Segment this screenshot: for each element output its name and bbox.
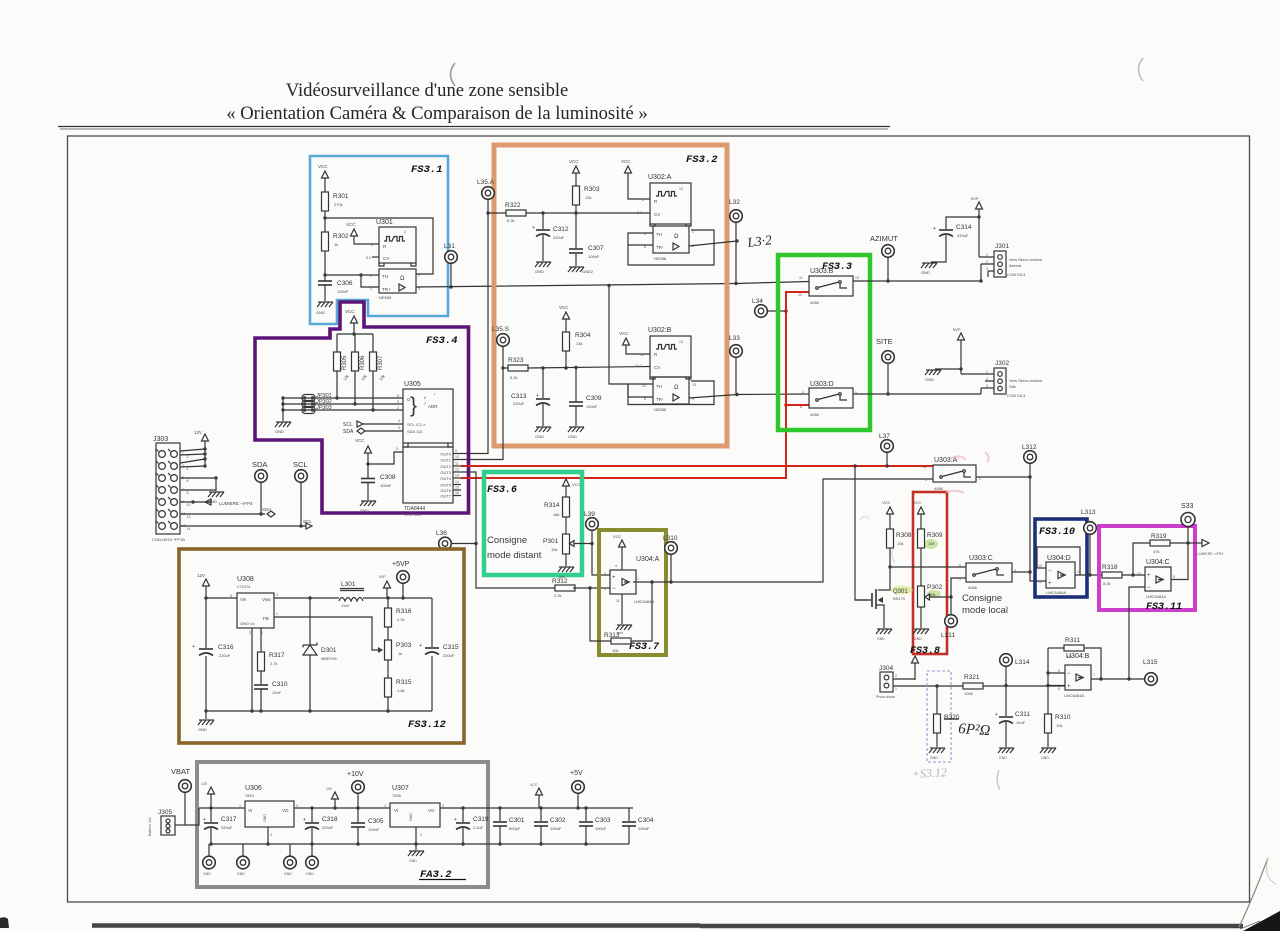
- resistor R310 10k: [1047, 713, 1049, 715]
- wire U302:B discharge loop: [628, 381, 714, 405]
- svg-text:R301: R301: [333, 193, 349, 200]
- svg-text:U303:B: U303:B: [810, 268, 834, 275]
- resistor R313 feedback 10k: [590, 588, 611, 641]
- title underline double rule: [58, 126, 890, 128]
- svg-text:15: 15: [455, 486, 459, 490]
- svg-text:C318: C318: [322, 816, 338, 823]
- svg-text:VCC=10V: VCC=10V: [404, 512, 422, 517]
- svg-text:Vers Servo-moteur: Vers Servo-moteur: [1009, 257, 1043, 262]
- resistor R318 8.2k: [1102, 572, 1122, 578]
- wire U303:C output: [1012, 571, 1030, 573]
- svg-text:L314: L314: [1015, 659, 1030, 666]
- svg-text:220uF: 220uF: [957, 233, 969, 238]
- wire TH/TR tie: [325, 274, 379, 276]
- svg-text:6: 6: [370, 274, 372, 278]
- svg-text:C310: C310: [272, 681, 288, 688]
- svg-text:1: 1: [986, 370, 988, 374]
- capacitor C319 2.2uF: [462, 808, 464, 822]
- svg-text:Consigne: Consigne: [487, 535, 527, 546]
- svg-text:OUT0: OUT0: [440, 452, 451, 457]
- wire L35A vertical to OUT0: [461, 200, 488, 454]
- svg-text:1k: 1k: [334, 242, 338, 247]
- wire R302-C306 node: [324, 251, 326, 281]
- svg-text:100nF: 100nF: [588, 254, 600, 259]
- svg-text:U305: U305: [404, 381, 421, 388]
- resistor R319 47k: [1133, 543, 1150, 575]
- wire U304:B output to L315: [1091, 678, 1144, 680]
- svg-text:VO: VO: [428, 808, 435, 813]
- svg-text:CV: CV: [383, 256, 389, 261]
- svg-text:FS3.11: FS3.11: [1146, 602, 1182, 613]
- svg-text:U303:D: U303:D: [810, 381, 834, 388]
- svg-text:10uF: 10uF: [1016, 720, 1026, 725]
- svg-text:R314: R314: [544, 502, 560, 509]
- wire U301 output to U303:B (long net): [416, 282, 809, 288]
- svg-text:CON SIL3: CON SIL3: [1007, 393, 1026, 398]
- svg-text:4066: 4066: [810, 300, 820, 305]
- svg-text:R322: R322: [505, 202, 521, 209]
- svg-text:C313: C313: [511, 393, 527, 400]
- svg-text:6: 6: [424, 396, 426, 400]
- svg-text:L37: L37: [879, 433, 890, 440]
- svg-text:VCC: VCC: [346, 222, 356, 227]
- svg-text:5: 5: [802, 391, 804, 395]
- svg-text:FS3.4: FS3.4: [426, 335, 458, 347]
- svg-text:CON SIL3: CON SIL3: [1007, 272, 1026, 277]
- svg-text:L315: L315: [1143, 659, 1158, 666]
- svg-text:Vidéosurveillance d'une zone s: Vidéosurveillance d'une zone sensible: [286, 80, 569, 101]
- svg-text:D301: D301: [321, 647, 337, 654]
- block frame FS3.12 (LT1074 supply): [179, 549, 464, 743]
- svg-text:R308: R308: [896, 532, 912, 539]
- svg-text:4: 4: [959, 577, 961, 581]
- wire U304:A output net: [633, 479, 933, 582]
- svg-text:TR+: TR+: [382, 287, 391, 292]
- ground (J302): [935, 368, 961, 370]
- svg-text:LMC6484A: LMC6484A: [1046, 590, 1066, 595]
- J303 pin circles: [159, 451, 166, 458]
- capacitor C315 220uF: [425, 647, 439, 649]
- svg-text:VCC: VCC: [345, 309, 355, 314]
- svg-text:10nF: 10nF: [272, 690, 282, 695]
- block frame FS3.7 (U304:A follower): [599, 530, 666, 655]
- wire FA3.2 ground rail: [211, 843, 629, 845]
- svg-text:Vin: Vin: [240, 597, 247, 602]
- svg-text:GND: GND: [877, 637, 885, 641]
- svg-text:2: 2: [396, 447, 398, 451]
- svg-text:U304:A: U304:A: [636, 556, 660, 563]
- resistor R307 10k: [370, 352, 377, 371]
- wire 12V to Vin: [206, 597, 237, 599]
- svg-text:2: 2: [895, 674, 897, 678]
- svg-text:FS3.10: FS3.10: [1039, 527, 1075, 538]
- svg-text:VCC: VCC: [530, 783, 538, 787]
- svg-text:2: 2: [187, 455, 189, 459]
- svg-text:+: +: [1067, 684, 1071, 690]
- svg-text:220uF: 220uF: [221, 825, 233, 830]
- svg-text:1: 1: [384, 804, 386, 808]
- svg-text:SDA: SDA: [343, 429, 354, 435]
- svg-text:GND: GND: [284, 872, 292, 876]
- svg-text:8: 8: [397, 394, 399, 398]
- svg-text:GND: GND: [1041, 756, 1049, 760]
- svg-text:SDA: SDA: [252, 460, 267, 469]
- connector J302: [994, 368, 1006, 394]
- wire J303 rows to GND: [180, 478, 216, 491]
- svg-text:U301: U301: [376, 219, 393, 226]
- wire R305/6/7 to address pins: [337, 371, 373, 410]
- svg-text:}: }: [410, 394, 417, 417]
- ground (C311): [998, 748, 1014, 753]
- wire P302 wiper to U303:C: [951, 578, 966, 597]
- svg-text:VO: VO: [282, 808, 289, 813]
- svg-text:+S3.12: +S3.12: [911, 765, 947, 781]
- wire R311 left to inputs: [1047, 648, 1049, 714]
- wire LUMIERE output arrow: [1188, 542, 1202, 544]
- svg-text:GND: GND: [360, 508, 369, 513]
- ground (R320): [929, 748, 945, 753]
- wire resistor rail: [337, 333, 373, 335]
- svg-text:R304: R304: [575, 332, 591, 339]
- block frame FS3.2 (dual 556 oscillators): [494, 145, 727, 446]
- capacitor C310 10nF: [254, 684, 268, 686]
- svg-text:R302: R302: [333, 233, 349, 240]
- svg-text:GND: GND: [914, 637, 922, 641]
- svg-text:GND: GND: [198, 727, 207, 732]
- svg-text:1: 1: [895, 687, 897, 691]
- svg-text:NE556: NE556: [654, 407, 667, 412]
- potentiometer P301 10k: [563, 534, 570, 554]
- svg-text:C311: C311: [1015, 711, 1030, 718]
- connector J301: [994, 251, 1006, 277]
- svg-text:JP303: JP303: [315, 405, 333, 411]
- ground (C308): [360, 501, 376, 506]
- terminal GND 4: [311, 844, 313, 856]
- wire Vsw to L301: [274, 597, 339, 599]
- svg-text:3: 3: [604, 572, 606, 576]
- ground (R310): [1040, 748, 1056, 753]
- svg-text:+: +: [192, 644, 195, 650]
- svg-text:13k: 13k: [585, 195, 591, 200]
- svg-text:L39: L39: [584, 511, 595, 518]
- svg-text:VCC: VCC: [882, 500, 891, 505]
- svg-text:L36: L36: [436, 530, 447, 537]
- svg-text:GND: GND: [999, 756, 1007, 760]
- svg-text:13: 13: [679, 340, 683, 344]
- svg-text:5VP: 5VP: [971, 196, 979, 201]
- svg-text:FS3.12: FS3.12: [408, 719, 447, 731]
- svg-text:SITE: SITE: [876, 337, 893, 346]
- svg-text:SCL /C1-»: SCL /C1-»: [407, 422, 426, 427]
- svg-text:TH: TH: [382, 274, 388, 279]
- svg-text:12V: 12V: [197, 573, 205, 578]
- svg-text:4066: 4066: [810, 412, 820, 417]
- block frame FS3.3 (azimut/site switches): [778, 255, 870, 430]
- svg-text:Vsw: Vsw: [262, 597, 271, 602]
- potentiometer P302 10k: [920, 548, 922, 586]
- svg-text:3: 3: [442, 804, 444, 808]
- svg-text:5: 5: [1173, 575, 1175, 579]
- svg-text:NE556: NE556: [654, 256, 667, 261]
- svg-text:2.2k: 2.2k: [397, 617, 405, 622]
- svg-text:14: 14: [187, 527, 191, 531]
- svg-text:SDA /1D: SDA /1D: [407, 429, 422, 434]
- svg-text:R315: R315: [396, 679, 412, 686]
- svg-text:« Orientation Caméra & Compara: « Orientation Caméra & Comparaison de la…: [226, 103, 647, 124]
- svg-text:TH: TH: [656, 384, 662, 389]
- ground (C309): [568, 427, 584, 432]
- svg-text:L311: L311: [941, 632, 955, 639]
- capacitor C302 100nF: [540, 808, 542, 821]
- svg-text:L301: L301: [341, 581, 356, 588]
- scan artifact: dark strip along bottom edge: [92, 923, 1243, 928]
- svg-text:FB: FB: [263, 616, 269, 621]
- svg-text:+: +: [203, 817, 206, 823]
- svg-text:+10V: +10V: [347, 771, 364, 778]
- svg-text:LMC6484A: LMC6484A: [634, 599, 654, 604]
- wire U303:A output to L312 node: [976, 477, 1046, 581]
- wire J303 rows to 12V: [180, 449, 205, 467]
- svg-text:FS3.2: FS3.2: [686, 154, 718, 166]
- svg-text:47k: 47k: [1153, 549, 1159, 554]
- block frame FS3.8 (consigne locale pot): [913, 492, 947, 654]
- svg-text:AZIMUT: AZIMUT: [870, 234, 898, 243]
- wire U304:D output to R318: [1075, 574, 1102, 576]
- svg-text:R321: R321: [964, 674, 980, 681]
- jumper JP301: [283, 397, 403, 399]
- svg-text:mode distant: mode distant: [487, 550, 542, 561]
- wire R308/Q301 drain node to U303:C: [878, 548, 966, 590]
- svg-text:Azimut: Azimut: [1009, 263, 1022, 268]
- svg-text:OUT4: OUT4: [440, 476, 451, 481]
- svg-text:C309: C309: [586, 395, 602, 402]
- svg-text:4: 4: [276, 593, 278, 597]
- svg-text:3: 3: [986, 384, 988, 388]
- svg-text:11: 11: [455, 462, 459, 466]
- svg-text:6: 6: [1058, 669, 1060, 673]
- svg-text:220uF: 220uF: [513, 401, 525, 406]
- resistor R321 100k: [893, 685, 963, 687]
- node L311: [950, 597, 952, 614]
- wire U304:C inverting input to L315 net: [1129, 587, 1145, 679]
- svg-text:7: 7: [418, 274, 420, 278]
- wire Q301 gate drop: [855, 466, 868, 600]
- scan artifact: paper curl mark top-right: [1139, 58, 1144, 81]
- svg-text:8: 8: [187, 491, 189, 495]
- svg-text:+5V: +5V: [570, 770, 583, 777]
- svg-text:LUMIERE -»FP4: LUMIERE -»FP4: [1197, 552, 1223, 556]
- potentiometer P303 1k: [385, 640, 392, 660]
- resistor R312: [555, 585, 575, 591]
- svg-text:GND: GND: [203, 872, 211, 876]
- svg-text:+: +: [1048, 581, 1052, 587]
- capacitor C313 220uF: [541, 366, 544, 369]
- svg-text:12: 12: [798, 293, 802, 297]
- svg-text:NE555: NE555: [379, 295, 392, 300]
- svg-text:270k: 270k: [334, 202, 343, 207]
- svg-text:11.0: 11.0: [635, 364, 642, 368]
- svg-text:+: +: [1147, 573, 1151, 579]
- ground (FS3.12): [205, 711, 207, 719]
- svg-text:2: 2: [404, 230, 406, 234]
- scan artifact: page curl bottom-right corner: [1239, 858, 1268, 927]
- svg-text:−: −: [1067, 671, 1071, 677]
- block frame FS3.1 (555 oscillator): [310, 156, 448, 324]
- svg-text:FS3.8: FS3.8: [910, 646, 940, 657]
- svg-text:J303: J303: [153, 436, 168, 443]
- svg-text:GND: GND: [275, 429, 284, 434]
- wire FA3.2 main rail: [199, 807, 633, 809]
- wire AZIMUT net: [853, 280, 981, 282]
- svg-text:14: 14: [455, 480, 459, 484]
- svg-text:C316: C316: [218, 644, 234, 651]
- svg-text:3: 3: [418, 287, 420, 291]
- svg-text:100nF: 100nF: [595, 826, 607, 831]
- svg-text:Q301: Q301: [893, 589, 908, 595]
- svg-text:2: 2: [986, 260, 988, 264]
- svg-text:220uF: 220uF: [322, 825, 334, 830]
- svg-text:GND Vc: GND Vc: [240, 621, 255, 626]
- ground (jumpers): [282, 398, 284, 421]
- svg-text:8.2k: 8.2k: [1103, 581, 1111, 586]
- svg-text:3: 3: [398, 426, 400, 430]
- svg-text:5VP: 5VP: [379, 575, 386, 579]
- ground (C306): [317, 302, 333, 307]
- svg-text:VCC: VCC: [318, 164, 328, 169]
- svg-text:18k: 18k: [553, 512, 559, 517]
- capacitor C308 100nF: [367, 464, 369, 478]
- svg-text:2: 2: [420, 833, 422, 837]
- svg-text:GND: GND: [409, 859, 417, 863]
- svg-text:Ω: Ω: [400, 276, 405, 282]
- wire U302:B output to U303:D: [689, 394, 809, 398]
- resistor R322 6.2k: [488, 212, 506, 214]
- svg-text:OUT6: OUT6: [440, 488, 451, 493]
- svg-text:R307: R307: [378, 355, 384, 370]
- svg-text:FS3.7: FS3.7: [629, 642, 660, 653]
- svg-text:10k: 10k: [897, 541, 903, 546]
- svg-text:S33: S33: [1181, 503, 1194, 510]
- svg-text:220uF: 220uF: [443, 653, 455, 658]
- svg-text:1.8k: 1.8k: [397, 688, 405, 693]
- svg-text:10k: 10k: [1056, 723, 1062, 728]
- svg-text:10k: 10k: [612, 648, 618, 653]
- svg-text:+: +: [612, 575, 616, 581]
- svg-text:VCC: VCC: [913, 500, 922, 505]
- svg-text:6: 6: [187, 479, 189, 483]
- transistor Q301 BS170: [891, 586, 913, 595]
- svg-text:GND: GND: [930, 756, 938, 760]
- svg-text:11: 11: [616, 599, 620, 603]
- ground (C314): [921, 263, 937, 268]
- svg-text:U308: U308: [237, 576, 254, 583]
- svg-text:mode local: mode local: [962, 605, 1008, 616]
- svg-text:VCC: VCC: [355, 438, 365, 443]
- scan artifact: paper curl mark top-center: [451, 63, 456, 86]
- wire U302:A discharge loop: [628, 230, 714, 265]
- svg-text:3: 3: [249, 631, 251, 635]
- wire U308 pin3 to rail: [251, 628, 253, 711]
- jumper JP302: [283, 403, 403, 405]
- svg-text:U304:D: U304:D: [1047, 555, 1071, 562]
- ground (U307): [408, 851, 424, 856]
- svg-text:TR-: TR-: [656, 397, 664, 402]
- svg-text:C302: C302: [550, 817, 566, 824]
- svg-text:2: 2: [986, 377, 988, 381]
- resistor R304 13k: [563, 332, 570, 351]
- svg-text:13: 13: [692, 383, 696, 387]
- svg-text:GND: GND: [306, 872, 314, 876]
- svg-text:U304:B: U304:B: [1066, 653, 1090, 660]
- svg-text:4066: 4066: [968, 585, 978, 590]
- svg-text:1: 1: [239, 804, 241, 808]
- svg-text:OUT2: OUT2: [440, 464, 451, 469]
- wire L35S vertical to OUT1: [461, 347, 503, 460]
- svg-text:P302: P302: [927, 584, 943, 591]
- svg-text:1: 1: [986, 253, 988, 257]
- svg-text:+: +: [536, 393, 539, 399]
- svg-text:VI: VI: [394, 808, 398, 813]
- resistor R316 2.2k: [387, 598, 389, 608]
- svg-text:6.2k: 6.2k: [510, 375, 518, 380]
- svg-text:6P²Ω: 6P²Ω: [958, 721, 991, 739]
- svg-text:ADR: ADR: [428, 404, 438, 409]
- block frame FS3.4 (TDA8444 DAC): [255, 302, 469, 513]
- svg-text:L32: L32: [729, 199, 740, 206]
- svg-text:4: 4: [398, 419, 400, 423]
- ground (U304:A): [621, 594, 623, 624]
- svg-text:R318: R318: [1102, 564, 1118, 571]
- svg-text:P301: P301: [543, 538, 559, 545]
- svg-text:CV: CV: [654, 212, 660, 217]
- svg-text:100nF: 100nF: [550, 826, 562, 831]
- svg-text:−: −: [1147, 585, 1151, 591]
- capacitor C312 220uF: [541, 211, 544, 214]
- svg-text:SCL: SCL: [343, 422, 353, 428]
- svg-text:BS170: BS170: [893, 596, 906, 601]
- svg-text:R309: R309: [927, 532, 943, 539]
- svg-text:1: 1: [637, 577, 639, 581]
- svg-text:10: 10: [187, 503, 191, 507]
- svg-text:LMC6484A: LMC6484A: [1064, 693, 1084, 698]
- svg-text:GND: GND: [568, 434, 577, 439]
- ground (C313): [535, 427, 551, 432]
- svg-text:GND: GND: [263, 814, 267, 822]
- svg-text:12: 12: [642, 384, 646, 388]
- svg-text:C314: C314: [956, 224, 972, 231]
- svg-text:C301: C301: [509, 817, 525, 824]
- svg-text:GND: GND: [535, 434, 544, 439]
- wire FS3.12 ground rail: [206, 710, 432, 712]
- svg-text:1: 1: [925, 478, 927, 482]
- svg-text:+: +: [933, 226, 936, 232]
- jumper JP303: [283, 409, 403, 411]
- svg-text:R303: R303: [584, 186, 600, 193]
- svg-text:C305: C305: [368, 818, 384, 825]
- svg-text:U304:C: U304:C: [1146, 559, 1170, 566]
- svg-text:U302:A: U302:A: [648, 174, 672, 181]
- svg-text:10: 10: [679, 187, 683, 191]
- svg-text:GND: GND: [535, 269, 544, 274]
- capacitor C303 100nF: [585, 808, 587, 821]
- svg-text:500pF: 500pF: [509, 826, 521, 831]
- svg-text:4: 4: [270, 833, 272, 837]
- svg-text:C308: C308: [380, 474, 396, 481]
- svg-text:12: 12: [187, 515, 191, 519]
- svg-text:Vers Servo-moteur: Vers Servo-moteur: [1009, 378, 1043, 383]
- svg-text:11: 11: [182, 512, 186, 516]
- annotation handwritten 6P2 ohm: [944, 718, 959, 720]
